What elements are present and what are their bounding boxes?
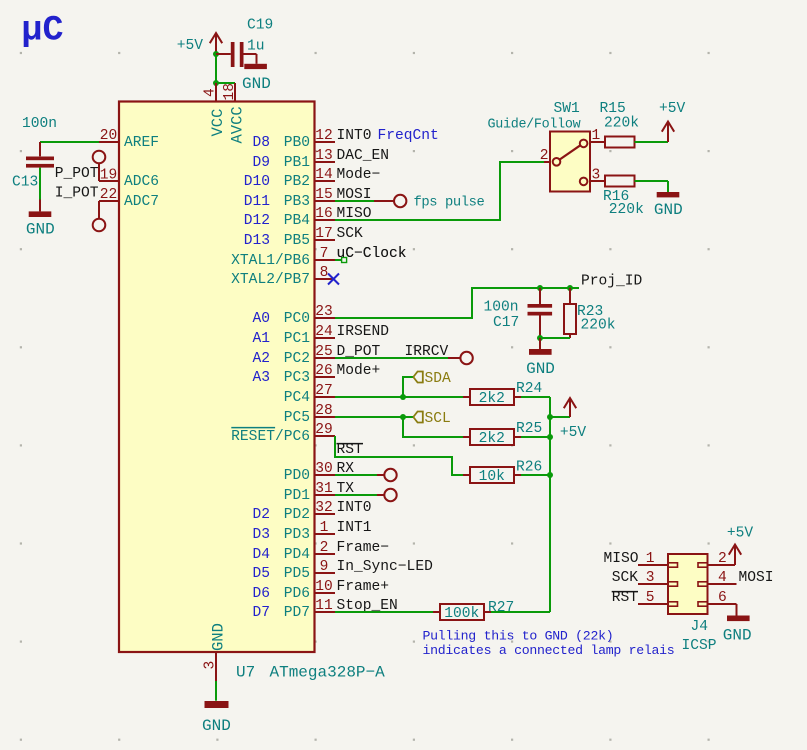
pin 19 ADC6 (98, 163, 100, 181)
svg-text:PB4: PB4 (284, 213, 311, 229)
svg-text:indicates a connected lamp rel: indicates a connected lamp relais (423, 643, 675, 658)
svg-text:µC: µC (22, 11, 64, 51)
svg-text:D7: D7 (252, 605, 270, 621)
svg-text:C17: C17 (493, 315, 519, 331)
svg-text:9: 9 (320, 559, 329, 575)
svg-text:PC5: PC5 (284, 410, 310, 426)
power symbol +5V (J4) (734, 547, 736, 566)
pin 4 VCC (215, 83, 217, 102)
svg-text:PD7: PD7 (284, 605, 310, 621)
wire R23 to C17 bottom (540, 337, 570, 339)
svg-text:Pulling this to GND (22k): Pulling this to GND (22k) (423, 629, 614, 644)
svg-text:SCK: SCK (612, 570, 639, 586)
switch SW1 contacts (553, 158, 561, 166)
svg-text:Proj_ID: Proj_ID (581, 273, 643, 289)
svg-text:AREF: AREF (124, 135, 159, 151)
wire +5V rail (vertical) (549, 397, 551, 612)
svg-text:In_Sync−LED: In_Sync−LED (337, 559, 434, 575)
node RX (384, 469, 396, 481)
svg-text:25: 25 (315, 344, 333, 360)
svg-text:28: 28 (315, 403, 333, 419)
svg-text:14: 14 (315, 167, 333, 183)
ground GND (J4) (736, 604, 738, 616)
ground GND (C19) (244, 64, 267, 69)
svg-text:PC2: PC2 (284, 351, 310, 367)
svg-text:D6: D6 (252, 586, 270, 602)
pin 30 PD0 (314, 474, 335, 476)
svg-text:220k: 220k (609, 202, 644, 218)
wire R15 to +5V (635, 141, 669, 143)
svg-text:30: 30 (315, 461, 333, 477)
svg-text:Mode+: Mode+ (337, 363, 381, 379)
svg-text:10: 10 (315, 579, 333, 595)
capacitor C19 (231, 42, 235, 67)
pin 26 PC3 (314, 376, 335, 378)
svg-text:R27: R27 (488, 600, 514, 616)
pin 29 RESET/PC6 (314, 435, 335, 437)
junction at R26 (547, 472, 553, 478)
svg-text:100k: 100k (444, 606, 479, 622)
wire R25 to +5V rail (514, 436, 521, 438)
svg-text:+5V: +5V (177, 38, 204, 54)
svg-text:uC−Clock: uC−Clock (337, 246, 407, 262)
svg-text:1: 1 (592, 128, 601, 144)
svg-text:PB3: PB3 (284, 194, 310, 210)
pin 8 XTAL2/PB7 (314, 278, 335, 280)
svg-text:PB5: PB5 (284, 233, 310, 249)
junction at C17 bottom (537, 335, 543, 341)
svg-text:P_POT: P_POT (55, 166, 99, 182)
wire GND pin to ground (215, 681, 217, 701)
pin 32 PD2 (314, 513, 335, 515)
svg-text:RST: RST (337, 442, 364, 458)
pin 22 ADC7 (99, 200, 119, 202)
capacitor C17 (539, 288, 541, 304)
pin 2 PD4 (314, 553, 335, 555)
svg-text:SCL: SCL (425, 411, 451, 427)
svg-text:PC1: PC1 (284, 331, 311, 347)
svg-text:RESET/PC6: RESET/PC6 (231, 429, 310, 445)
svg-text:MOSI: MOSI (739, 570, 774, 586)
pin 11 PD7 (314, 611, 335, 613)
svg-text:A2: A2 (252, 351, 270, 367)
pin 6 J4 GND (698, 602, 708, 606)
node P_POT (93, 151, 106, 164)
svg-text:PD3: PD3 (284, 527, 310, 543)
svg-text:U7: U7 (236, 663, 255, 681)
svg-text:220k: 220k (604, 115, 639, 131)
pin 15 PB3 (314, 200, 335, 202)
pin 10 PD6 (314, 592, 335, 594)
pin 12 PB0 (314, 141, 335, 143)
wire RX/PD0 (335, 474, 377, 476)
svg-text:D2: D2 (252, 507, 270, 523)
wire SCL stub (403, 416, 413, 418)
svg-text:PD0: PD0 (284, 468, 310, 484)
svg-text:GND: GND (723, 626, 752, 644)
svg-text:3: 3 (203, 661, 219, 670)
pin 20 AREF (99, 141, 119, 143)
power symbol +5V (top) (215, 35, 217, 54)
wire SDA stub (403, 377, 413, 397)
svg-text:FreqCnt: FreqCnt (378, 128, 439, 144)
ground GND (C17) (539, 338, 541, 349)
svg-text:Mode−: Mode− (337, 167, 381, 183)
svg-text:PD4: PD4 (284, 547, 311, 563)
junction at R25 (547, 434, 553, 440)
switch SW1 Guide/Follow body (550, 132, 590, 192)
wire RESET/PC6 to R26 (335, 436, 463, 475)
wire PC0 to Proj_ID (335, 288, 579, 318)
svg-text:2k2: 2k2 (479, 391, 505, 407)
svg-text:GND: GND (209, 623, 227, 651)
svg-text:31: 31 (315, 481, 333, 497)
junction at VCC pin (213, 80, 219, 86)
node TX (384, 489, 396, 501)
wire PC5 to SCL junction (335, 416, 403, 418)
svg-text:R25: R25 (516, 421, 542, 437)
svg-text:PD5: PD5 (284, 566, 310, 582)
svg-text:SW1: SW1 (554, 101, 581, 117)
svg-text:+5V: +5V (560, 425, 587, 441)
svg-text:17: 17 (315, 226, 333, 242)
svg-text:2: 2 (718, 551, 727, 567)
resistor R26 10k (470, 467, 514, 483)
svg-text:D13: D13 (244, 233, 270, 249)
junction at +5V/C19 (213, 51, 219, 57)
pin 16 PB4 (314, 219, 335, 221)
svg-text:+5V: +5V (727, 525, 754, 541)
svg-text:4: 4 (203, 88, 219, 97)
wire AREF to C13 (40, 141, 99, 143)
svg-text:6: 6 (718, 590, 727, 606)
pin 28 PC5 (314, 416, 335, 418)
pin 1 SW1 (590, 141, 605, 143)
svg-text:32: 32 (315, 500, 333, 516)
pin 17 PB5 (314, 239, 335, 241)
pin 14 PB2 (314, 180, 335, 182)
svg-text:3: 3 (646, 570, 655, 586)
svg-text:5: 5 (646, 590, 655, 606)
svg-text:2: 2 (320, 540, 329, 556)
wire +5V stub (550, 416, 570, 418)
pin 5 J4 RST (638, 603, 668, 605)
wire R24 to +5V rail (514, 396, 521, 398)
svg-text:GND: GND (526, 360, 555, 378)
svg-text:D4: D4 (252, 547, 270, 563)
svg-text:19: 19 (100, 167, 118, 183)
junction at PC4/SDA (400, 394, 406, 400)
pin 1 J4 MISO (638, 564, 668, 566)
svg-text:D5: D5 (252, 566, 270, 582)
svg-text:PC4: PC4 (284, 390, 311, 406)
svg-text:A1: A1 (252, 331, 270, 347)
node IRRCV (460, 352, 472, 364)
svg-text:100n: 100n (484, 300, 519, 316)
svg-text:12: 12 (315, 128, 333, 144)
svg-text:GND: GND (654, 201, 683, 219)
wire TX/PD1 (335, 494, 377, 496)
resistor R25 2k2 (470, 429, 514, 445)
pin 18 AVCC (234, 83, 236, 102)
svg-text:R24: R24 (516, 381, 543, 397)
svg-text:11: 11 (315, 598, 333, 614)
pin 9 PD5 (314, 572, 335, 574)
resistor R15 220k (605, 137, 635, 148)
svg-text:D11: D11 (244, 194, 271, 210)
connector J4 ICSP body (668, 554, 708, 614)
svg-text:100n: 100n (22, 116, 57, 132)
svg-text:PC0: PC0 (284, 311, 310, 327)
svg-text:4: 4 (718, 570, 727, 586)
pin 3 J4 SCK (638, 583, 668, 585)
pin 2 J4 +5V (698, 563, 708, 567)
capacitor C13 (39, 142, 41, 156)
svg-text:23: 23 (315, 304, 333, 320)
pin 7 XTAL1/PB6 (314, 259, 335, 261)
svg-text:3: 3 (592, 167, 601, 183)
svg-text:+5V: +5V (659, 101, 686, 117)
node fps pulse (394, 195, 406, 207)
wire R27 to +5V rail (484, 611, 491, 613)
svg-text:IRRCV: IRRCV (405, 344, 449, 360)
junction at C17 top (537, 285, 543, 291)
svg-text:18: 18 (222, 83, 238, 101)
wire MISO/PB4 to SW1 pin 2 (335, 162, 544, 220)
svg-text:220k: 220k (581, 318, 616, 334)
svg-text:DAC_EN: DAC_EN (337, 148, 390, 164)
svg-text:D10: D10 (244, 174, 270, 190)
svg-text:GND: GND (242, 75, 271, 93)
svg-text:2: 2 (540, 148, 549, 164)
svg-text:PB2: PB2 (284, 174, 310, 190)
svg-text:GND: GND (202, 717, 231, 735)
pin 4 J4 MOSI (698, 582, 708, 586)
ground GND (C13) (39, 200, 41, 212)
svg-text:27: 27 (315, 383, 333, 399)
svg-text:29: 29 (315, 422, 333, 438)
wire R26 to +5V rail (514, 474, 521, 476)
pin 27 PC4 (314, 396, 335, 398)
ground GND (U7) (205, 701, 229, 708)
svg-text:GND: GND (26, 221, 55, 239)
svg-text:PD1: PD1 (284, 488, 311, 504)
pin 13 PB1 (314, 161, 335, 163)
svg-text:INT0: INT0 (337, 500, 372, 516)
svg-text:IRSEND: IRSEND (337, 324, 390, 340)
hierarchical label SCL (413, 412, 423, 423)
svg-text:Frame−: Frame− (337, 540, 390, 556)
wire R16 to GND (635, 180, 669, 182)
wire MOSI/PB3 to fps pulse (335, 200, 374, 202)
svg-text:ADC7: ADC7 (124, 194, 159, 210)
junction at R23 top (567, 285, 573, 291)
svg-text:16: 16 (315, 206, 333, 222)
svg-text:C19: C19 (247, 18, 273, 34)
wire +5V to VCC/AVCC (215, 54, 217, 83)
svg-text:D3: D3 (252, 527, 270, 543)
pin 1 PD3 (314, 533, 335, 535)
ground GND (R16) (657, 192, 680, 197)
svg-text:D9: D9 (252, 155, 270, 171)
junction at PC5/SCL (400, 414, 406, 420)
pin 3 SW1 (590, 180, 605, 182)
microcontroller U7 body (119, 102, 315, 653)
power symbol +5V (pull-up rail) (569, 400, 571, 417)
svg-text:13: 13 (315, 148, 333, 164)
svg-text:I_POT: I_POT (55, 186, 99, 202)
svg-text:SDA: SDA (425, 371, 452, 387)
pin 31 PD1 (314, 494, 335, 496)
svg-text:Frame+: Frame+ (337, 579, 390, 595)
svg-text:D8: D8 (252, 135, 270, 151)
svg-text:24: 24 (315, 324, 333, 340)
svg-text:1: 1 (320, 520, 329, 536)
resistor R27 100k (440, 604, 484, 620)
svg-text:7: 7 (320, 246, 329, 262)
pin 2 SW1 (544, 161, 550, 163)
svg-text:XTAL2/PB7: XTAL2/PB7 (231, 272, 310, 288)
hierarchical label SDA (413, 372, 423, 383)
svg-text:fps pulse: fps pulse (414, 195, 485, 211)
svg-text:10k: 10k (479, 469, 506, 485)
no-connect flag on XTAL2/PB7 (328, 274, 339, 285)
svg-text:22: 22 (100, 187, 118, 203)
svg-text:1: 1 (646, 551, 655, 567)
svg-text:RST: RST (612, 590, 639, 606)
svg-text:PD6: PD6 (284, 586, 310, 602)
resistor R23 (569, 288, 571, 304)
wire PC5 to R25 (403, 417, 463, 437)
wire D_POT/PC2 to IRRCV (335, 357, 448, 359)
svg-text:Guide/Follow: Guide/Follow (488, 118, 581, 133)
svg-text:VCC: VCC (209, 109, 227, 137)
svg-text:J4: J4 (691, 619, 709, 635)
svg-text:ADC6: ADC6 (124, 174, 159, 190)
svg-text:C13: C13 (12, 175, 38, 191)
svg-text:26: 26 (315, 363, 333, 379)
resistor R24 2k2 (470, 389, 514, 405)
svg-text:MISO: MISO (603, 551, 638, 567)
svg-text:R26: R26 (516, 459, 542, 475)
pin 25 PC2 (314, 357, 335, 359)
pin 23 PC0 (314, 317, 335, 319)
resistor R16 220k (605, 176, 635, 187)
svg-text:20: 20 (100, 128, 118, 144)
svg-text:PB1: PB1 (284, 155, 311, 171)
svg-text:PC3: PC3 (284, 370, 310, 386)
pin 3 GND (bottom) (215, 652, 217, 681)
wire stub uC-Clock (dangling) (335, 259, 342, 261)
svg-text:D12: D12 (244, 213, 270, 229)
svg-text:A0: A0 (252, 311, 270, 327)
wire Stop_EN/PD7 to R27 (335, 611, 433, 613)
svg-text:A3: A3 (252, 370, 270, 386)
svg-text:PB0: PB0 (284, 135, 310, 151)
pin 24 PC1 (314, 337, 335, 339)
svg-text:INT0: INT0 (337, 128, 372, 144)
svg-text:ATmega328P−A: ATmega328P−A (270, 663, 386, 681)
svg-text:PD2: PD2 (284, 507, 310, 523)
svg-text:INT1: INT1 (337, 520, 372, 536)
svg-text:2k2: 2k2 (479, 431, 505, 447)
power symbol +5V (SW1) (667, 124, 669, 143)
svg-text:8: 8 (320, 265, 329, 281)
svg-text:XTAL1/PB6: XTAL1/PB6 (231, 253, 310, 269)
svg-text:SCK: SCK (337, 226, 364, 242)
junction at +5V stub (547, 414, 553, 420)
wire PC4 to R24 (335, 396, 463, 398)
svg-text:15: 15 (315, 187, 333, 203)
svg-text:1u: 1u (247, 39, 265, 55)
svg-text:AVCC: AVCC (228, 106, 246, 143)
svg-text:ICSP: ICSP (682, 638, 717, 654)
